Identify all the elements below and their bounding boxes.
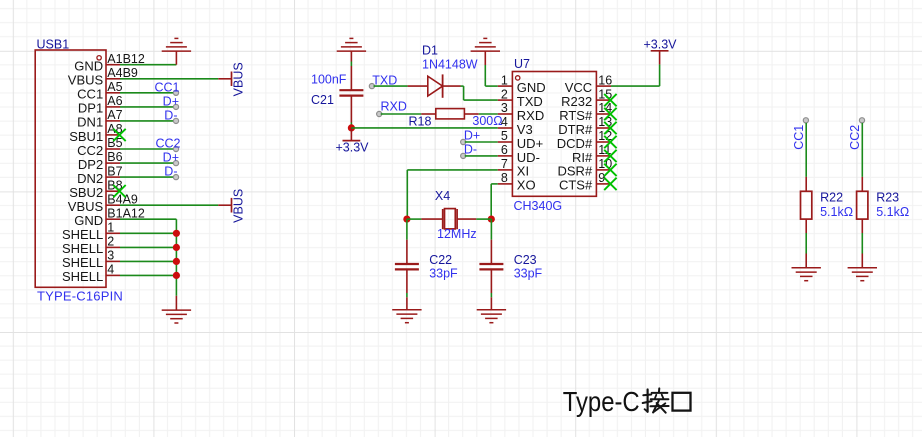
svg-text:DSR#: DSR# (558, 164, 593, 179)
svg-text:6: 6 (501, 143, 508, 157)
svg-text:33pF: 33pF (429, 267, 458, 281)
svg-text:R232: R232 (561, 94, 592, 109)
svg-text:VBUS: VBUS (232, 62, 246, 96)
svg-text:1N4148W: 1N4148W (422, 58, 478, 72)
svg-text:C22: C22 (429, 253, 452, 267)
svg-text:A1B12: A1B12 (107, 52, 145, 66)
svg-text:X4: X4 (435, 189, 450, 203)
svg-text:5.1kΩ: 5.1kΩ (876, 205, 909, 219)
svg-text:GND: GND (517, 80, 546, 95)
svg-text:B7: B7 (107, 164, 122, 178)
svg-text:USB1: USB1 (37, 37, 70, 51)
svg-text:D-: D- (164, 108, 177, 122)
svg-text:D+: D+ (163, 151, 179, 165)
svg-text:TYPE-C16PIN: TYPE-C16PIN (37, 288, 123, 303)
svg-text:CH340G: CH340G (514, 199, 563, 213)
svg-text:+3.3V: +3.3V (335, 141, 369, 155)
svg-text:R22: R22 (820, 190, 843, 204)
svg-text:DP1: DP1 (78, 101, 103, 116)
svg-text:12MHz: 12MHz (437, 227, 477, 241)
svg-text:33pF: 33pF (514, 267, 543, 281)
svg-text:RXD: RXD (381, 99, 407, 113)
svg-text:DTR#: DTR# (558, 122, 593, 137)
svg-text:XI: XI (517, 164, 529, 179)
svg-text:TXD: TXD (517, 94, 543, 109)
svg-text:D-: D- (164, 165, 177, 179)
svg-text:1: 1 (501, 73, 508, 87)
svg-text:SBU1: SBU1 (69, 129, 103, 144)
svg-text:8: 8 (501, 171, 508, 185)
svg-text:CC2: CC2 (848, 125, 862, 150)
svg-text:D1: D1 (422, 44, 438, 58)
svg-text:DN1: DN1 (77, 115, 103, 130)
svg-text:A6: A6 (107, 94, 122, 108)
svg-text:VBUS: VBUS (68, 199, 104, 214)
svg-text:16: 16 (598, 73, 612, 87)
svg-text:SHELL: SHELL (62, 227, 103, 242)
svg-text:CC1: CC1 (154, 80, 179, 94)
svg-text:CC2: CC2 (155, 137, 180, 151)
svg-text:R23: R23 (876, 190, 899, 204)
svg-text:CC1: CC1 (792, 125, 806, 150)
svg-text:C21: C21 (311, 93, 334, 107)
svg-text:D+: D+ (163, 94, 179, 108)
svg-text:SBU2: SBU2 (69, 185, 103, 200)
svg-text:100nF: 100nF (311, 72, 347, 86)
svg-text:RXD: RXD (517, 108, 544, 123)
svg-text:SHELL: SHELL (62, 241, 103, 256)
svg-text:DP2: DP2 (78, 157, 103, 172)
svg-text:U7: U7 (514, 57, 530, 71)
svg-text:SHELL: SHELL (62, 255, 103, 270)
svg-text:GND: GND (74, 213, 103, 228)
svg-text:A7: A7 (107, 108, 122, 122)
svg-text:5: 5 (501, 129, 508, 143)
svg-text:7: 7 (501, 157, 508, 171)
svg-text:XO: XO (517, 178, 536, 193)
svg-text:B6: B6 (107, 150, 122, 164)
svg-text:1: 1 (107, 221, 114, 235)
svg-text:4: 4 (107, 263, 114, 277)
svg-text:300Ω: 300Ω (472, 114, 502, 128)
svg-text:2: 2 (501, 87, 508, 101)
svg-text:A5: A5 (107, 80, 122, 94)
svg-text:R18: R18 (409, 114, 432, 128)
svg-text:B1A12: B1A12 (107, 206, 145, 220)
svg-text:C23: C23 (514, 253, 537, 267)
svg-text:CC1: CC1 (77, 87, 103, 102)
svg-text:5.1kΩ: 5.1kΩ (820, 205, 853, 219)
svg-text:D-: D- (464, 142, 477, 156)
svg-text:CTS#: CTS# (559, 178, 593, 193)
svg-text:VBUS: VBUS (232, 189, 246, 223)
svg-text:Type-C: Type-C (563, 386, 640, 417)
svg-text:2: 2 (107, 235, 114, 249)
svg-text:GND: GND (74, 59, 103, 74)
svg-text:VBUS: VBUS (68, 73, 104, 88)
svg-text:CC2: CC2 (77, 143, 103, 158)
svg-text:A4B9: A4B9 (107, 66, 138, 80)
svg-text:DN2: DN2 (77, 171, 103, 186)
svg-text:V3: V3 (517, 122, 533, 137)
svg-text:D+: D+ (464, 128, 480, 142)
svg-text:RTS#: RTS# (559, 108, 593, 123)
svg-text:UD+: UD+ (517, 136, 543, 151)
svg-text:3: 3 (107, 249, 114, 263)
svg-text:DCD#: DCD# (557, 136, 593, 151)
svg-text:UD-: UD- (517, 150, 540, 165)
svg-text:SHELL: SHELL (62, 269, 103, 284)
svg-text:+3.3V: +3.3V (643, 37, 677, 51)
svg-text:RI#: RI# (572, 150, 593, 165)
svg-text:VCC: VCC (565, 80, 592, 95)
